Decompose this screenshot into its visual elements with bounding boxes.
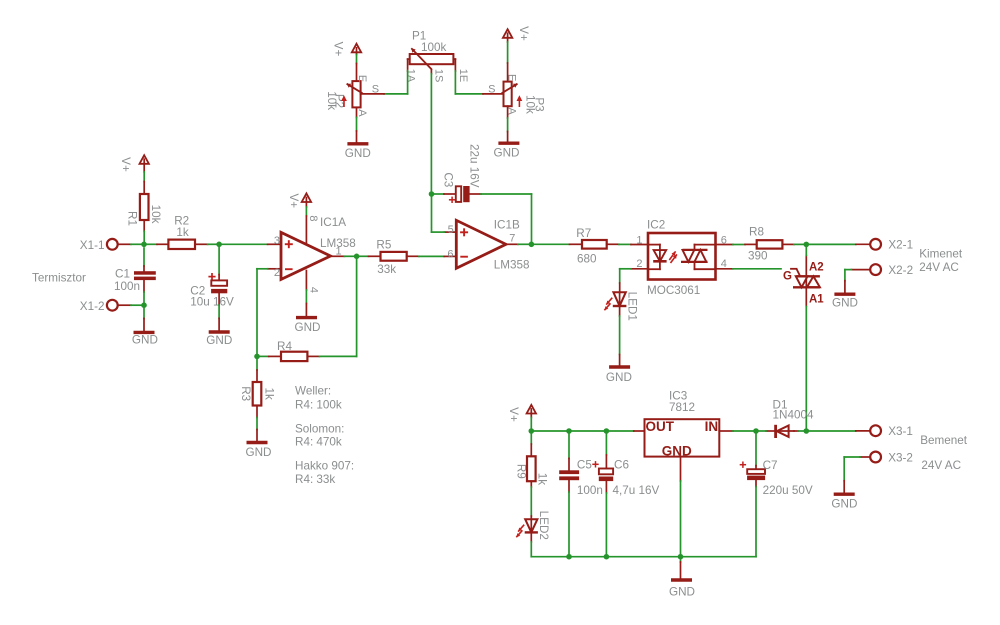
junction node H	[753, 428, 759, 434]
svg-text:S: S	[372, 83, 379, 95]
optocoupler IC2 MOC3061	[647, 219, 716, 297]
svg-text:E: E	[356, 75, 368, 82]
svg-text:R4: 470k: R4: 470k	[295, 436, 342, 449]
svg-text:V+: V+	[517, 26, 530, 41]
pad X3-2	[860, 451, 913, 464]
svg-text:R8: R8	[749, 225, 764, 238]
pin 2 stub IC1A	[268, 268, 281, 270]
wire X2-2 to ground	[845, 269, 852, 271]
wire node E to R7	[531, 243, 569, 245]
wire X3-2 to ground	[844, 456, 860, 458]
svg-text:LM358: LM358	[494, 259, 530, 272]
svg-text:G: G	[783, 270, 792, 282]
junction node C	[354, 253, 360, 259]
wire feedback vertical	[256, 269, 258, 357]
wire R4 to node C riser	[320, 355, 357, 357]
junction rail C5	[566, 428, 572, 434]
svg-text:GND: GND	[606, 371, 632, 384]
ground X2-2	[832, 281, 858, 310]
wire node C to R5	[357, 255, 369, 257]
junction node A	[141, 242, 147, 248]
wire node D to R4	[257, 355, 269, 357]
svg-text:24V AC: 24V AC	[921, 459, 961, 472]
svg-text:1k: 1k	[176, 226, 189, 239]
svg-text:IC2: IC2	[647, 219, 665, 232]
wire node G to triac	[805, 244, 807, 255]
wire X1-2 to node	[131, 304, 144, 306]
wire V+ to P2	[356, 55, 358, 64]
pin OUT stub	[634, 430, 645, 432]
svg-text:A1: A1	[809, 293, 824, 305]
diode D1 1N4004	[766, 399, 814, 438]
power V+ P2	[332, 42, 362, 57]
triac T1	[783, 255, 824, 306]
wire V+ to P3	[507, 42, 509, 63]
junction node D	[254, 354, 260, 360]
svg-text:4,7u 16V: 4,7u 16V	[613, 484, 660, 497]
pad X3-1	[856, 425, 913, 438]
wire IC3 GND down	[680, 481, 682, 557]
svg-text:4: 4	[307, 287, 319, 293]
wire pin5 riser	[431, 194, 433, 232]
ground P3	[494, 132, 520, 160]
resistor R2 1k	[157, 214, 208, 249]
wire node F to C3	[432, 193, 445, 195]
ground R3	[246, 430, 272, 460]
capacitor C1 100n	[114, 266, 156, 293]
wire C5 to rail	[568, 492, 570, 557]
power V+ IC1A pin 8	[287, 193, 311, 208]
resistor R1 10k	[126, 182, 162, 232]
ground IC1A	[295, 304, 321, 334]
svg-text:IC1A: IC1A	[320, 216, 346, 229]
wire R9 to LED2	[530, 487, 532, 516]
svg-text:10k: 10k	[149, 205, 162, 224]
wire P3 to ground	[507, 118, 509, 132]
pin 6 stub IC2	[716, 244, 734, 246]
svg-text:5: 5	[448, 224, 454, 236]
svg-text:2: 2	[636, 258, 642, 270]
resistor R7 680	[570, 227, 620, 265]
wire node B to C2	[218, 244, 220, 274]
junction rail R9	[529, 428, 535, 434]
svg-text:Hakko 907:: Hakko 907:	[295, 459, 354, 472]
svg-text:GND: GND	[295, 321, 321, 334]
IC2 internal triac	[681, 245, 716, 270]
potentiometer P3 10k	[483, 63, 545, 118]
svg-text:V+: V+	[507, 407, 520, 422]
svg-text:1A: 1A	[404, 69, 416, 83]
svg-text:OUT: OUT	[646, 419, 675, 434]
svg-text:220u 50V: 220u 50V	[763, 484, 813, 497]
svg-text:680: 680	[577, 252, 597, 265]
pad X2-1	[856, 239, 913, 252]
svg-text:S: S	[488, 83, 495, 95]
junction node F	[429, 191, 435, 197]
wire X1-1 to node	[131, 243, 144, 245]
wire triac A1 down	[805, 307, 807, 432]
resistor R5 33k	[369, 239, 420, 277]
capacitor C7 220u 50V	[740, 431, 813, 497]
svg-text:X1-2: X1-2	[80, 300, 105, 313]
svg-text:1: 1	[336, 246, 342, 258]
svg-text:LED2: LED2	[537, 511, 550, 540]
svg-text:100k: 100k	[421, 41, 447, 54]
wire node to C1	[143, 248, 145, 266]
wire IC1B out to node E	[518, 243, 531, 245]
potentiometer P1 100k	[404, 29, 469, 83]
wire P1 1E down	[454, 71, 456, 94]
pin IN stub	[719, 430, 733, 432]
wire LED2 to rail	[530, 542, 532, 557]
svg-text:C7: C7	[763, 459, 778, 472]
wire pin 2 to feedback	[257, 268, 268, 270]
pin 4 stub IC1A	[305, 271, 307, 291]
svg-text:A: A	[356, 109, 368, 117]
pin 5 stub IC1B	[444, 231, 456, 233]
capacitor C5 100n	[559, 431, 603, 497]
wire IC1A out to node C	[344, 255, 356, 257]
svg-text:GND: GND	[662, 443, 692, 458]
wire LED1 to ground	[619, 316, 621, 355]
power V+ P3	[503, 26, 530, 42]
svg-text:33k: 33k	[377, 263, 396, 276]
svg-text:R4: 100k: R4: 100k	[295, 399, 342, 412]
svg-text:1N4004: 1N4004	[773, 409, 814, 422]
junction node E	[529, 242, 535, 248]
wire IC2 pin6 to R8	[733, 244, 745, 246]
junction rail IC3 GND	[678, 554, 684, 560]
resistor R4	[269, 340, 320, 361]
wire P1 1A down	[407, 71, 409, 94]
op-amp IC1B LM358	[456, 218, 529, 271]
svg-text:E: E	[506, 74, 518, 81]
svg-text:GND: GND	[831, 497, 857, 510]
svg-text:GND: GND	[494, 146, 520, 159]
wire R7 to IC2 pin1	[619, 243, 631, 245]
svg-text:R5: R5	[376, 239, 391, 252]
pin 4 stub IC2	[716, 268, 734, 270]
pin 3 stub IC1A	[268, 243, 281, 245]
resistor R9 1k	[515, 431, 549, 487]
op-amp IC1A LM358	[281, 216, 356, 279]
wire R3 to ground	[256, 418, 258, 430]
svg-text:Solomon:: Solomon:	[295, 423, 344, 436]
wire D1 to node I	[798, 430, 806, 432]
junction rail C6 bottom	[604, 554, 610, 560]
wire R2 to node B	[208, 243, 220, 245]
svg-text:V+: V+	[119, 157, 132, 172]
svg-text:Kimenet: Kimenet	[919, 247, 963, 260]
wire ground rail	[531, 556, 756, 558]
junction rail C5 bottom	[566, 554, 572, 560]
svg-text:C6: C6	[614, 458, 629, 471]
power V+ regulator output	[507, 405, 536, 422]
svg-text:6: 6	[721, 234, 727, 246]
svg-text:Weller:: Weller:	[295, 385, 331, 398]
ground P2	[345, 131, 371, 160]
svg-text:7: 7	[509, 233, 515, 245]
wire C1 to ground	[143, 292, 145, 305]
svg-text:X3-1: X3-1	[888, 425, 913, 438]
svg-text:1k: 1k	[536, 473, 549, 486]
svg-text:IC1B: IC1B	[494, 218, 520, 231]
pin GND stub IC3	[680, 457, 682, 481]
ground X3-2	[831, 481, 857, 511]
wire IN to node H	[733, 430, 756, 432]
wire IC2 pin2 to LED1	[620, 268, 631, 270]
wire C3 to node E	[481, 193, 532, 195]
svg-text:GND: GND	[345, 147, 371, 160]
capacitor C2 10u 16V	[190, 273, 234, 308]
wire pin 4 to ground	[305, 290, 307, 304]
svg-text:IN: IN	[705, 419, 719, 434]
svg-text:A: A	[505, 107, 517, 115]
pad X1-2	[80, 300, 131, 313]
wire R8 to node G	[794, 243, 806, 245]
svg-text:P3: P3	[532, 97, 545, 111]
IC2 internal light arrows	[669, 251, 675, 260]
pad X2-2	[851, 264, 913, 277]
svg-text:X1-1: X1-1	[80, 239, 105, 252]
pin 8 stub IC1A	[305, 216, 307, 244]
wire V+ rail	[530, 418, 532, 432]
pin 1 output stub IC1A	[331, 255, 345, 257]
svg-text:MOC3061: MOC3061	[647, 284, 700, 297]
resistor R8 390	[745, 225, 794, 262]
wire R5 to IC1B pin6	[419, 255, 444, 257]
svg-text:100n: 100n	[114, 280, 140, 293]
wire C7 to rail	[755, 487, 757, 557]
svg-text:1k: 1k	[262, 388, 275, 401]
junction node I	[804, 428, 810, 434]
svg-text:Termisztor: Termisztor	[32, 271, 86, 284]
ground main	[669, 557, 695, 599]
svg-text:R7: R7	[576, 227, 591, 240]
capacitor C6 4,7u 16V	[592, 431, 659, 497]
potentiometer P2 10k	[325, 64, 384, 118]
wire V+ to pin 8	[305, 207, 307, 216]
wire C6 to rail	[605, 493, 607, 557]
wire node H to D1	[756, 430, 766, 432]
pad X1-1	[80, 239, 131, 252]
wire node B to IC1A pin3	[219, 243, 268, 245]
svg-text:390: 390	[748, 250, 768, 263]
regulator IC3 7812	[645, 389, 720, 458]
svg-text:8: 8	[307, 215, 319, 221]
svg-text:Bemenet: Bemenet	[920, 434, 968, 447]
svg-text:A2: A2	[809, 261, 824, 273]
wire node I to X3-1	[806, 430, 856, 432]
svg-text:V+: V+	[287, 193, 300, 208]
svg-text:R9: R9	[515, 464, 528, 479]
svg-text:GND: GND	[246, 446, 272, 459]
svg-text:1: 1	[636, 235, 642, 247]
svg-text:1E: 1E	[457, 69, 469, 82]
svg-text:GND: GND	[132, 334, 158, 347]
svg-text:24V AC: 24V AC	[919, 261, 959, 274]
svg-text:10u 16V: 10u 16V	[190, 295, 234, 308]
svg-text:4: 4	[721, 258, 727, 270]
wire C2 to ground	[218, 305, 220, 318]
IC2 internal LED	[648, 245, 667, 270]
ground LED1	[606, 355, 632, 385]
svg-text:X2-2: X2-2	[888, 264, 913, 277]
wire P2 to ground	[356, 117, 358, 131]
junction X1-2/C1	[141, 302, 147, 308]
LED LED2	[516, 511, 550, 542]
svg-text:6: 6	[447, 249, 453, 261]
pin 2 stub IC2	[631, 268, 648, 270]
svg-text:100n: 100n	[577, 484, 603, 497]
svg-text:R4: 33k: R4: 33k	[295, 473, 335, 486]
svg-text:2: 2	[274, 267, 280, 279]
junction rail C6	[604, 428, 610, 434]
capacitor C3 22u 16V	[442, 144, 481, 203]
wire P1 1S down	[430, 70, 432, 74]
power V+ (R1 pull-up)	[119, 155, 149, 172]
junction node G	[804, 242, 810, 248]
svg-text:V+: V+	[332, 42, 345, 57]
svg-text:GND: GND	[669, 586, 695, 599]
svg-text:X2-1: X2-1	[888, 239, 913, 252]
svg-text:GND: GND	[206, 334, 232, 347]
pin 7 output stub IC1B	[506, 243, 518, 245]
wire node to R2	[144, 243, 157, 245]
svg-text:R4: R4	[277, 340, 292, 353]
svg-text:X3-2: X3-2	[888, 451, 913, 464]
wire R1 to node	[143, 231, 145, 244]
svg-text:C5: C5	[577, 458, 592, 471]
wire node G to X2-1	[806, 243, 856, 245]
resistor R3 1k	[239, 356, 275, 417]
wire V+ to R1	[143, 172, 145, 182]
svg-text:22u 16V: 22u 16V	[467, 144, 480, 188]
svg-text:7812: 7812	[669, 401, 695, 414]
ground C1	[132, 319, 158, 347]
ground C2	[206, 318, 232, 347]
pin 6 stub IC1B	[444, 255, 456, 257]
svg-text:C1: C1	[115, 268, 130, 281]
svg-text:3: 3	[274, 235, 280, 247]
svg-text:C3: C3	[442, 172, 455, 187]
LED LED1	[604, 283, 638, 321]
pin 1 stub IC2	[631, 244, 648, 246]
svg-text:GND: GND	[832, 296, 858, 309]
svg-text:1S: 1S	[433, 69, 445, 82]
svg-text:R1: R1	[126, 211, 139, 226]
svg-text:LED1: LED1	[625, 292, 638, 321]
wire IC2 pin4 to gate	[733, 268, 781, 270]
svg-text:R3: R3	[239, 386, 252, 401]
junction node B	[216, 242, 222, 248]
